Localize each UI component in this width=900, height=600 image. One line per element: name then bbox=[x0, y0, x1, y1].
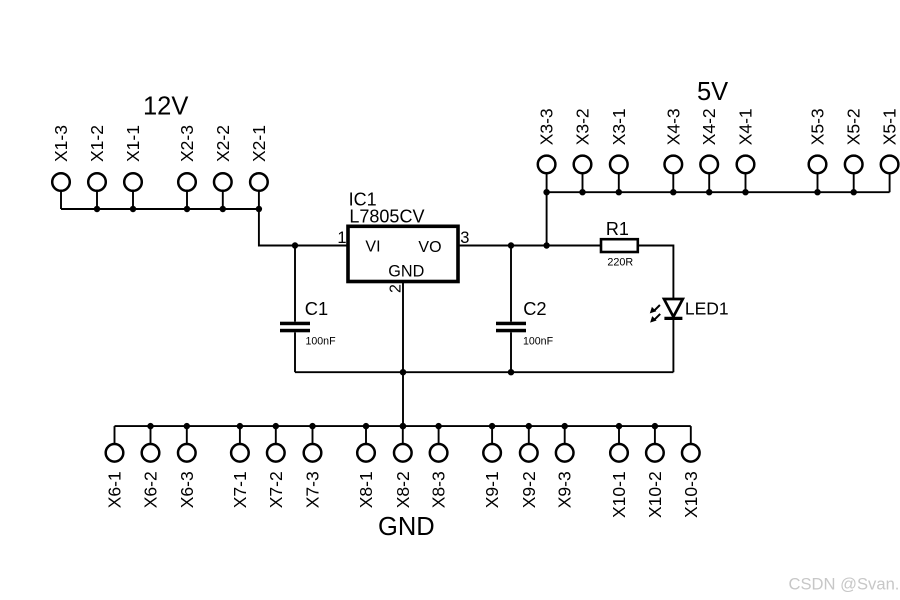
junction at 5V drop bbox=[543, 242, 549, 248]
connector pin X1-3 bbox=[51, 125, 71, 209]
svg-text:X4-2: X4-2 bbox=[699, 108, 719, 145]
svg-text:X5-1: X5-1 bbox=[880, 108, 900, 145]
wire 5V bus drop bbox=[546, 192, 548, 245]
junction bbox=[543, 189, 549, 195]
connector pin X4-2 bbox=[699, 108, 719, 192]
svg-text:VO: VO bbox=[418, 239, 441, 256]
connector pin X10-1 bbox=[609, 426, 629, 518]
connector pin X5-3 bbox=[808, 108, 828, 192]
svg-text:100nF: 100nF bbox=[523, 336, 554, 348]
junction rail/C2 bbox=[508, 369, 514, 375]
connector pin X2-1 bbox=[249, 125, 269, 209]
regulator IC1 L7805CV body bbox=[348, 226, 458, 281]
svg-text:X10-1: X10-1 bbox=[609, 471, 629, 518]
junction bbox=[706, 189, 712, 195]
connector pin X5-1 bbox=[880, 108, 900, 192]
wire LED1 cathode down bbox=[672, 320, 674, 372]
svg-text:X3-2: X3-2 bbox=[573, 108, 593, 145]
junction bbox=[742, 189, 748, 195]
connector pin X3-1 bbox=[609, 108, 629, 192]
LED1 emission arrows bbox=[650, 305, 660, 323]
junction bbox=[363, 423, 369, 429]
connector pin X9-1 bbox=[482, 426, 502, 508]
connector pin X6-2 bbox=[141, 426, 161, 508]
svg-text:12V: 12V bbox=[143, 92, 188, 120]
connector pin X7-2 bbox=[266, 426, 286, 508]
connector pin X9-2 bbox=[519, 426, 539, 508]
svg-text:C2: C2 bbox=[523, 298, 546, 319]
svg-text:X9-3: X9-3 bbox=[555, 471, 575, 508]
connector pin X3-3 bbox=[537, 108, 557, 192]
wire GND bus bbox=[115, 425, 691, 427]
svg-text:X10-3: X10-3 bbox=[681, 471, 701, 518]
junction bbox=[273, 423, 279, 429]
junction GND bus center bbox=[400, 423, 406, 429]
junction bbox=[256, 206, 262, 212]
connector pin X5-2 bbox=[844, 108, 864, 192]
capacitor C2 bbox=[496, 246, 526, 373]
svg-text:X2-3: X2-3 bbox=[177, 125, 197, 162]
connector pin X1-1 bbox=[123, 125, 143, 209]
svg-text:L7805CV: L7805CV bbox=[349, 206, 424, 226]
svg-text:X1-3: X1-3 bbox=[51, 125, 71, 162]
svg-text:X2-1: X2-1 bbox=[249, 125, 269, 162]
junction bbox=[562, 423, 568, 429]
svg-text:CSDN @Svan.: CSDN @Svan. bbox=[789, 574, 900, 593]
wire IC1 VO to R1 bbox=[458, 245, 601, 247]
junction bbox=[579, 189, 585, 195]
svg-text:C1: C1 bbox=[305, 298, 328, 319]
svg-text:220R: 220R bbox=[607, 257, 633, 269]
svg-text:R1: R1 bbox=[606, 219, 629, 239]
junction bbox=[400, 423, 406, 429]
svg-text:100nF: 100nF bbox=[306, 336, 337, 348]
connector pin X8-3 bbox=[429, 426, 449, 508]
connector pin X10-3 bbox=[681, 426, 701, 518]
connector pin X4-3 bbox=[663, 108, 683, 192]
connector pin X7-3 bbox=[303, 426, 323, 508]
connector pin X8-1 bbox=[356, 426, 376, 508]
wire 5V bus bbox=[547, 191, 890, 193]
connector pin X3-2 bbox=[573, 108, 593, 192]
svg-text:X1-2: X1-2 bbox=[87, 125, 107, 162]
junction bbox=[814, 189, 820, 195]
svg-text:LED1: LED1 bbox=[685, 299, 729, 319]
svg-text:X7-3: X7-3 bbox=[303, 471, 323, 508]
svg-text:X9-2: X9-2 bbox=[519, 471, 539, 508]
junction bbox=[489, 423, 495, 429]
connector pin X1-2 bbox=[87, 125, 107, 209]
svg-text:1: 1 bbox=[337, 229, 346, 247]
svg-text:X5-3: X5-3 bbox=[808, 108, 828, 145]
svg-text:GND: GND bbox=[378, 513, 435, 541]
svg-text:X9-1: X9-1 bbox=[482, 471, 502, 508]
connector pin X6-1 bbox=[105, 426, 125, 508]
svg-text:X8-1: X8-1 bbox=[356, 471, 376, 508]
resistor R1 bbox=[601, 239, 638, 252]
connector pin X6-3 bbox=[177, 426, 197, 508]
LED LED1 bbox=[664, 299, 683, 318]
svg-text:X10-2: X10-2 bbox=[645, 471, 665, 518]
svg-text:3: 3 bbox=[460, 229, 469, 247]
svg-text:X7-2: X7-2 bbox=[266, 471, 286, 508]
junction bbox=[652, 423, 658, 429]
connector pin X8-2 bbox=[393, 426, 413, 508]
junction bbox=[94, 206, 100, 212]
connector pin X7-1 bbox=[230, 426, 250, 508]
capacitor C1 bbox=[280, 246, 310, 373]
wire 12V to IC1 VI bbox=[259, 209, 348, 246]
junction bbox=[435, 423, 441, 429]
wire IC1 GND pin to GND bus bbox=[402, 282, 404, 427]
junction bbox=[147, 423, 153, 429]
svg-text:X6-1: X6-1 bbox=[105, 471, 125, 508]
junction rail/pin2 bbox=[400, 369, 406, 375]
junction bbox=[670, 189, 676, 195]
svg-text:X6-2: X6-2 bbox=[141, 471, 161, 508]
wire R1 to LED1 bbox=[638, 246, 674, 300]
svg-text:X6-3: X6-3 bbox=[177, 471, 197, 508]
svg-text:GND: GND bbox=[388, 263, 424, 281]
svg-text:X3-1: X3-1 bbox=[609, 108, 629, 145]
junction bbox=[220, 206, 226, 212]
svg-text:X4-1: X4-1 bbox=[736, 108, 756, 145]
svg-text:X8-2: X8-2 bbox=[393, 471, 413, 508]
svg-text:X2-2: X2-2 bbox=[213, 125, 233, 162]
svg-text:X1-1: X1-1 bbox=[123, 125, 143, 162]
junction at C1 bbox=[292, 242, 298, 248]
svg-text:X8-3: X8-3 bbox=[429, 471, 449, 508]
junction bbox=[616, 423, 622, 429]
junction bbox=[130, 206, 136, 212]
svg-text:X3-3: X3-3 bbox=[537, 108, 557, 145]
svg-text:5V: 5V bbox=[697, 78, 728, 106]
junction bbox=[526, 423, 532, 429]
connector pin X2-3 bbox=[177, 125, 197, 209]
wire 12V bus bbox=[61, 208, 259, 210]
junction bbox=[851, 189, 857, 195]
svg-text:X4-3: X4-3 bbox=[663, 108, 683, 145]
junction at C2 bbox=[508, 242, 514, 248]
junction bbox=[184, 423, 190, 429]
svg-text:2: 2 bbox=[387, 284, 404, 293]
connector pin X10-2 bbox=[645, 426, 665, 518]
connector pin X2-2 bbox=[213, 125, 233, 209]
svg-text:X5-2: X5-2 bbox=[844, 108, 864, 145]
junction bbox=[184, 206, 190, 212]
svg-text:X7-1: X7-1 bbox=[230, 471, 250, 508]
connector pin X9-3 bbox=[555, 426, 575, 508]
junction bbox=[616, 189, 622, 195]
junction bbox=[237, 423, 243, 429]
wire ground rail C1-C2-LED bbox=[295, 371, 673, 373]
connector pin X4-1 bbox=[736, 108, 756, 192]
svg-text:VI: VI bbox=[365, 239, 380, 256]
junction bbox=[309, 423, 315, 429]
